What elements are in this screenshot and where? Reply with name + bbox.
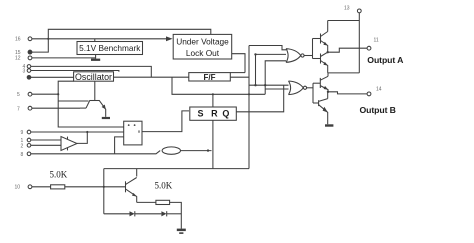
node output B junction <box>327 91 329 93</box>
wire oscillator output to F/F <box>114 76 189 78</box>
wire pin5 CT <box>32 93 58 95</box>
wire output B to pin 14 <box>328 92 367 94</box>
node dots on blanking line <box>254 84 256 86</box>
wire pin2 non-inverting input <box>31 144 61 146</box>
svg-text:5.0K: 5.0K <box>155 181 173 191</box>
ground benchmark <box>95 55 97 59</box>
wire pin6 RT into oscillator <box>31 76 74 78</box>
node latch branch dot <box>254 53 256 55</box>
svg-text:8: 8 <box>21 152 24 158</box>
ground discharge <box>102 117 110 119</box>
wire output A to pin 11 <box>328 48 368 52</box>
terminal pin 7 <box>28 106 32 110</box>
terminal pin 15 <box>28 50 32 54</box>
wire R2 to ground branch <box>170 202 182 228</box>
wire G1 output to Q3/Q4 bases <box>304 55 312 57</box>
wire CT rail: osc bottom-left hook down to comparator ramp <box>58 81 124 127</box>
terminal pin 5 <box>28 92 32 96</box>
wire UVLO output down to F/F <box>232 54 245 73</box>
terminal pin 6 <box>27 76 31 80</box>
wire latch Q output up to gates <box>236 85 283 112</box>
resistor R1 5.0K <box>51 185 65 189</box>
wire diode row <box>104 213 130 215</box>
svg-text:Output A: Output A <box>367 55 404 65</box>
wire shutdown rail <box>104 168 249 170</box>
gate NOR A G1 <box>286 49 301 63</box>
terminal pin 14 <box>367 92 371 96</box>
terminal pin 1 <box>27 138 31 142</box>
wire NOR B middle input branch <box>265 88 290 90</box>
wire comparator output to latch S input <box>142 111 189 132</box>
wire current source to R input rail <box>181 150 212 152</box>
wire VC rail <box>358 13 360 73</box>
wire pin1 inverting input <box>31 139 61 141</box>
wire long vertical latch reset net <box>248 46 250 169</box>
diode D2 <box>161 211 166 216</box>
terminal pin 3 <box>27 69 31 73</box>
svg-text:12: 12 <box>15 56 21 62</box>
box F/F U4 <box>189 73 231 81</box>
terminal pin 11 <box>367 46 371 50</box>
svg-text:10: 10 <box>15 185 21 191</box>
transistor Q2 shutdown <box>125 181 127 192</box>
wire latch R input from shutdown rail <box>212 120 214 168</box>
terminal pin 10 <box>28 185 32 189</box>
wire between diodes <box>135 213 162 215</box>
comparator marks <box>128 124 130 126</box>
wire Vref: pin16 line across to UVLO arrow <box>32 38 167 40</box>
wire NOR A bottom input branch <box>265 61 287 95</box>
node dot on soft start line <box>207 149 209 151</box>
wire F/F Q output <box>230 76 249 78</box>
transistor Q5 output B top <box>319 78 321 88</box>
wire pin12 to benchmark ground <box>32 57 96 59</box>
terminal pin 16 <box>28 37 32 41</box>
node junction pin10/rail <box>103 186 105 188</box>
svg-text:R: R <box>211 109 218 119</box>
ground bottom <box>177 229 186 232</box>
wire stub benchmark top <box>94 39 96 42</box>
svg-text:3: 3 <box>23 69 26 75</box>
svg-text:11: 11 <box>374 38 379 44</box>
terminal pin 2 <box>27 144 31 148</box>
wire G2 output to Q5/Q6 bases <box>307 87 313 89</box>
svg-text:14: 14 <box>376 87 382 93</box>
wire D2 to ground branch <box>167 213 182 215</box>
wire pin7 discharge <box>32 107 80 109</box>
wire Q2 collector to rail <box>136 169 138 177</box>
transistor Q4 output A bottom <box>320 54 322 64</box>
box 5.1V Benchmark U1 <box>77 42 143 55</box>
box Oscillator U3 <box>74 72 114 81</box>
node junction CT <box>57 93 59 95</box>
wire pin4 osc output to FF clock <box>31 66 151 77</box>
node junction pin16/vertical <box>47 38 49 40</box>
wire error amp output up to pin9 line <box>77 132 87 143</box>
transistor Q6 output B bottom <box>318 100 320 106</box>
svg-text:S: S <box>197 109 203 119</box>
svg-text:Under Voltage: Under Voltage <box>176 37 229 47</box>
box Under Voltage Lock Out U2 <box>173 34 232 59</box>
node EA output junction <box>86 131 88 133</box>
svg-text:5: 5 <box>17 92 20 98</box>
node output A junction <box>327 51 329 53</box>
box comparator U6 <box>124 121 142 145</box>
wire VCC top: pin15 up and across to UVLO top <box>32 29 211 52</box>
terminal pin 13 <box>357 9 361 13</box>
terminal pin 9 <box>27 130 31 134</box>
transistor Q3 output A top <box>320 34 322 44</box>
wire soft-start tap to comparator third input <box>115 137 124 154</box>
ground output stage <box>325 124 333 126</box>
wire pin3 sync into oscillator top <box>31 71 119 72</box>
diode D1 <box>130 211 135 216</box>
wire F/F top stub <box>230 72 245 74</box>
wire latch branch vertical <box>255 54 257 85</box>
svg-text:9: 9 <box>21 130 24 136</box>
wire pin10 shutdown <box>32 186 51 188</box>
svg-text:13: 13 <box>344 6 350 12</box>
arrowhead into UVLO <box>166 36 173 41</box>
wire pin9 compensation into comparator <box>31 131 124 133</box>
terminal pin 4 <box>27 65 31 69</box>
svg-text:F/F: F/F <box>204 73 216 82</box>
resistor R2 5.0K <box>156 200 170 204</box>
box PWM latch S R Q U5 <box>190 107 237 120</box>
wire Q2 emitter to R2 <box>137 201 156 203</box>
svg-text:2: 2 <box>21 143 24 149</box>
wire latch net to NOR A top input <box>249 46 288 50</box>
wire rail down to diode row <box>103 169 105 214</box>
svg-text:Q: Q <box>222 109 229 119</box>
svg-text:5.0K: 5.0K <box>50 170 68 180</box>
current source I1 <box>162 147 180 154</box>
terminal pin 12 <box>28 56 32 60</box>
wire R1 to shutdown transistor base <box>65 186 126 188</box>
wire pin8 soft start to current source <box>31 151 160 154</box>
node junction osc/reset <box>248 93 250 95</box>
svg-text:Lock Out: Lock Out <box>186 48 220 58</box>
wire osc line down across to gates <box>172 77 265 94</box>
svg-text:5.1V Benchmark: 5.1V Benchmark <box>79 43 141 53</box>
terminal pin 8 <box>27 152 31 156</box>
svg-text:16: 16 <box>15 37 21 43</box>
svg-text:Output B: Output B <box>360 105 396 115</box>
gate NOR B G2 <box>289 81 304 95</box>
op-amp error amplifier U7 <box>61 137 77 151</box>
wire blanking to NOR B top input <box>249 84 290 86</box>
transistor Q1 discharge <box>58 100 88 102</box>
svg-text:7: 7 <box>17 107 20 113</box>
wire NOR A middle input <box>256 53 288 55</box>
wire latch clock from osc line <box>212 94 214 107</box>
svg-text:Oscillator: Oscillator <box>75 72 112 82</box>
